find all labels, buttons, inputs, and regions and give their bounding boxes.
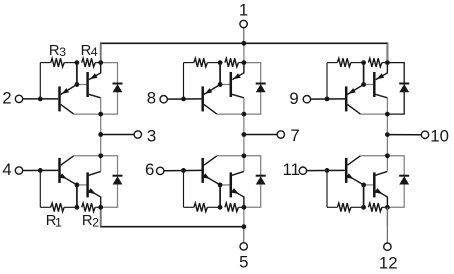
diode D3: [399, 83, 409, 85]
node: [242, 153, 247, 158]
node: [385, 112, 390, 117]
wire: [207, 62, 220, 64]
transistor Q3 (upper V driver, PNP): [203, 85, 220, 112]
wire: [387, 156, 404, 176]
svg-text:5: 5: [239, 252, 248, 271]
wire: [243, 114, 245, 134]
resistor (lower W output B-E): [368, 203, 382, 212]
wire: [327, 62, 337, 64]
node: [361, 183, 366, 188]
node: [361, 60, 366, 65]
wire: [244, 63, 261, 84]
wire: [207, 206, 220, 208]
node: [385, 60, 390, 65]
svg-text:1: 1: [239, 0, 248, 19]
terminal pin 3: [101, 126, 157, 145]
transistor Q2 (upper U output, PNP): [88, 63, 101, 97]
wire: [64, 206, 77, 208]
terminal pin 12: [379, 207, 398, 272]
wire: [183, 170, 185, 207]
wire: [76, 63, 78, 85]
svg-text:11: 11: [282, 160, 299, 179]
svg-text:3: 3: [59, 45, 66, 59]
node: [325, 97, 330, 102]
node: [98, 132, 103, 137]
resistor (upper V output B-E): [225, 58, 239, 67]
resistor R2: [82, 203, 96, 212]
wire: [100, 135, 102, 156]
wire: [326, 63, 328, 99]
svg-text:7: 7: [290, 126, 299, 145]
node: [242, 205, 247, 210]
svg-text:12: 12: [379, 253, 398, 272]
wire: [232, 171, 244, 175]
wire: [89, 94, 101, 98]
terminal pin 6: [145, 160, 201, 179]
wire: [61, 156, 74, 165]
wire: [386, 135, 388, 156]
wire: [238, 206, 244, 208]
node: [181, 97, 186, 102]
transistor Q10 (lower V output, NPN): [231, 172, 244, 207]
wire: [39, 63, 41, 99]
wire: [326, 170, 328, 207]
node: [361, 82, 366, 87]
terminal pin 1: [239, 0, 248, 43]
terminal pin 11: [282, 160, 345, 179]
wire: [347, 156, 360, 165]
wire: [101, 63, 118, 84]
wire: [100, 43, 102, 62]
node: [361, 205, 366, 210]
transistor Q11 (lower W driver, NPN): [346, 158, 363, 185]
wire: [101, 184, 118, 207]
transistor Q7 (lower U driver, NPN): [60, 158, 77, 185]
wire: [95, 206, 101, 208]
label R4: [81, 43, 98, 59]
wire: [244, 156, 261, 176]
transistor Q6 (upper W output, PNP): [374, 63, 387, 97]
svg-text:1: 1: [55, 215, 62, 229]
transistor Q12 (lower W output, NPN): [374, 172, 387, 207]
node: [75, 183, 80, 188]
wire: [204, 156, 217, 165]
node: [385, 132, 390, 137]
wire: [347, 104, 360, 114]
terminal pin 2: [2, 89, 58, 108]
wire: [40, 62, 50, 64]
diode D4: [113, 175, 123, 177]
wire: [64, 62, 77, 64]
wire: [101, 156, 118, 176]
svg-text:8: 8: [147, 89, 156, 108]
node: [242, 60, 247, 65]
node: [98, 60, 103, 65]
wire: [101, 92, 118, 114]
wire: [382, 62, 388, 64]
wire: [220, 184, 230, 186]
wire: [219, 63, 221, 85]
resistor R1: [51, 203, 64, 212]
terminal pin 10: [387, 126, 449, 145]
wire: [244, 184, 261, 207]
node: [218, 205, 223, 210]
wire: [184, 206, 194, 208]
wire: [387, 184, 404, 207]
node: [38, 97, 43, 102]
svg-text:R: R: [82, 213, 93, 229]
wire: [382, 206, 388, 208]
node: [325, 168, 330, 173]
terminal pin 9: [289, 89, 345, 108]
wire: [76, 185, 78, 207]
svg-text:3: 3: [147, 126, 156, 145]
wire: [387, 92, 404, 114]
wire: [243, 207, 245, 226]
svg-text:2: 2: [2, 89, 11, 108]
wire: [351, 62, 364, 64]
terminal pin 7: [244, 126, 300, 145]
node: [218, 82, 223, 87]
node: [181, 168, 186, 173]
node: [75, 205, 80, 210]
wire: [386, 43, 388, 62]
wire: [386, 207, 388, 226]
svg-text:R: R: [49, 43, 60, 59]
wire: [375, 171, 387, 175]
node: [242, 41, 247, 46]
wire: [100, 114, 102, 134]
transistor Q5 (upper W driver, PNP): [346, 85, 363, 112]
wire: [77, 84, 87, 86]
wire: [100, 207, 102, 226]
wire: [327, 206, 337, 208]
svg-text:10: 10: [430, 126, 449, 145]
node: [98, 153, 103, 158]
wire: [61, 104, 74, 114]
resistor (lower W driver B-E): [337, 203, 351, 212]
resistor R3: [51, 58, 64, 67]
wire: [183, 63, 185, 99]
node: [385, 205, 390, 210]
transistor Q8 (lower U output, NPN): [88, 172, 101, 207]
svg-text:4: 4: [91, 45, 98, 59]
wire: [243, 135, 245, 156]
resistor (upper W driver B-E): [337, 58, 351, 67]
wire: [39, 170, 41, 207]
resistor (upper W output B-E): [368, 58, 382, 67]
wire: [243, 43, 245, 62]
svg-text:9: 9: [289, 89, 298, 108]
node: [218, 183, 223, 188]
wire: [387, 63, 404, 84]
node: [38, 168, 43, 173]
wire: [219, 185, 221, 207]
resistor (lower V driver B-E): [194, 203, 208, 212]
wire: [364, 184, 374, 186]
node: [98, 205, 103, 210]
wire: [375, 94, 387, 98]
wire: [351, 206, 364, 208]
wire: [95, 62, 101, 64]
resistor (lower V output B-E): [225, 203, 239, 212]
diode D1: [113, 83, 123, 85]
resistor (upper V driver B-E): [194, 58, 208, 67]
terminal pin 4: [2, 160, 58, 179]
node: [242, 224, 247, 229]
wire: [184, 62, 194, 64]
wire: [363, 185, 365, 207]
transistor Q1 (upper U driver, PNP): [60, 85, 77, 112]
wire N bus (pin 5 rail): [101, 207, 244, 226]
wire: [364, 84, 374, 86]
transistor Q9 (lower V driver, NPN): [203, 158, 220, 185]
diode D5: [256, 175, 266, 177]
node: [218, 60, 223, 65]
transistor Q4 (upper V output, PNP): [231, 63, 244, 97]
node: [242, 112, 247, 117]
wire: [220, 84, 230, 86]
diode D2: [256, 83, 266, 85]
wire: [232, 94, 244, 98]
svg-text:6: 6: [145, 160, 154, 179]
node: [75, 60, 80, 65]
label R2: [82, 213, 99, 229]
terminal pin 5: [239, 227, 248, 272]
svg-text:2: 2: [92, 215, 99, 229]
wire: [77, 184, 87, 186]
wire P bus (pin 1 rail): [101, 43, 388, 62]
node: [98, 112, 103, 117]
wire: [244, 92, 261, 114]
diode D6: [399, 175, 409, 177]
wire: [363, 63, 365, 85]
wire: [386, 114, 388, 134]
svg-text:R: R: [81, 43, 92, 59]
node: [242, 132, 247, 137]
terminal pin 8: [147, 89, 202, 108]
node: [75, 82, 80, 87]
wire: [40, 206, 50, 208]
wire: [204, 104, 217, 114]
node: [385, 153, 390, 158]
wire: [238, 62, 244, 64]
resistor R4: [82, 58, 96, 67]
svg-text:4: 4: [2, 160, 11, 179]
label R1: [46, 213, 62, 229]
wire: [89, 171, 101, 175]
label R3: [49, 43, 66, 59]
